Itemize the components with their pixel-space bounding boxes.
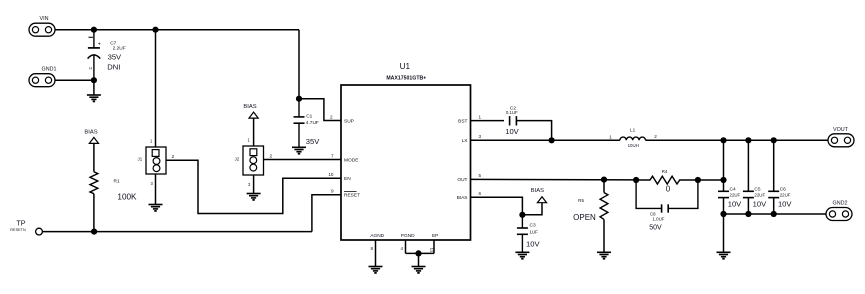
- svg-text:10UH: 10UH: [628, 143, 639, 148]
- resistor R4 0: [636, 169, 698, 194]
- svg-text:2: 2: [654, 134, 657, 139]
- svg-text:6: 6: [479, 191, 482, 196]
- svg-text:LX: LX: [462, 138, 469, 144]
- power flag BIAS (J2): [243, 104, 258, 118]
- wire U1 BIAS pin to C3: [471, 197, 523, 215]
- test point TP (RESETN): [10, 218, 42, 235]
- wire R1 to RESET line: [93, 194, 95, 232]
- wire top rail drop to C1 node: [298, 30, 300, 99]
- svg-text:J1: J1: [138, 157, 143, 162]
- svg-text:EN: EN: [344, 176, 351, 182]
- pin BIAS (6): [457, 191, 482, 201]
- svg-text:BIAS: BIAS: [531, 188, 544, 194]
- wire RESET net up to U1 RESET pin: [312, 195, 341, 232]
- wire BIAS flag to J2 pin1: [253, 118, 255, 146]
- junction BIAS / C3: [519, 212, 525, 218]
- ground below C1: [292, 147, 306, 153]
- svg-text:C1: C1: [306, 114, 312, 120]
- capacitor C2 0.1uF 10V (BST): [505, 105, 519, 136]
- svg-text:9: 9: [331, 189, 334, 194]
- svg-text:22UF: 22UF: [730, 193, 741, 198]
- connector VIN (P-VIN): [29, 16, 55, 36]
- svg-text:4: 4: [400, 246, 403, 251]
- ground below R5: [597, 252, 611, 258]
- svg-text:10V: 10V: [526, 239, 540, 248]
- resistor R5 OPEN: [573, 193, 608, 222]
- pin OUT (5): [457, 173, 481, 183]
- connector GND1 (P-GND1): [29, 67, 56, 87]
- wire BIAS node to flag: [522, 203, 542, 215]
- svg-text:35V: 35V: [108, 52, 122, 61]
- junction R4/C8 right node: [695, 177, 701, 183]
- svg-text:C6: C6: [780, 186, 786, 192]
- svg-text:+: +: [98, 41, 101, 47]
- pin LX (3): [462, 134, 482, 144]
- svg-text:R4: R4: [662, 169, 668, 174]
- junction C1 / SUP node: [296, 96, 302, 102]
- svg-text:GND1: GND1: [42, 67, 57, 73]
- wire EP down: [433, 240, 435, 253]
- wire node to U1 SUP: [299, 99, 341, 121]
- svg-text:U1: U1: [400, 62, 411, 71]
- wire BIAS flag to R1: [93, 143, 95, 171]
- pin SUP (2): [330, 114, 354, 124]
- connector VOUT (P-VOUT): [828, 127, 854, 147]
- svg-text:22UF: 22UF: [754, 193, 765, 198]
- power flag BIAS (R1 pullup): [84, 130, 98, 144]
- svg-text:1: 1: [479, 114, 482, 119]
- svg-text:PGND: PGND: [401, 233, 415, 239]
- svg-text:50V: 50V: [649, 225, 662, 232]
- wire R5 to ground: [603, 219, 605, 252]
- junction top rail / J1 branch: [152, 27, 158, 33]
- wire PGND down: [405, 240, 407, 253]
- svg-text:1.0UF: 1.0UF: [653, 217, 665, 222]
- svg-text:1: 1: [609, 134, 612, 139]
- svg-text:35V: 35V: [306, 137, 320, 146]
- junction VOUT rail / C6: [771, 137, 777, 143]
- wire C2 to LX line: [516, 121, 551, 141]
- wire AGND to ground: [375, 240, 377, 267]
- junction GND1/C7/ground node: [91, 77, 97, 83]
- resistor R1 100K: [90, 172, 137, 202]
- junction BST cap / LX: [549, 137, 555, 143]
- svg-text:C3: C3: [530, 223, 536, 229]
- junction VIN/C7 node: [91, 27, 97, 33]
- svg-text:R1: R1: [114, 179, 120, 185]
- svg-text:EP: EP: [432, 233, 438, 239]
- svg-text:10V: 10V: [778, 200, 792, 209]
- wire C7 node to ground: [93, 80, 95, 95]
- wire feedback to VOUT: [698, 179, 724, 181]
- ground below output rail: [717, 252, 731, 258]
- pin AGND (8): [370, 233, 384, 251]
- wire R5 top: [603, 180, 605, 193]
- wire J2 pin3 to ground: [253, 175, 255, 194]
- svg-text:RESETN: RESETN: [10, 228, 26, 232]
- svg-text:BIAS: BIAS: [457, 195, 468, 201]
- wire L1 to VOUT rail: [646, 139, 829, 141]
- capacitor C1 4.7uF 35V: [294, 99, 321, 148]
- svg-text:10: 10: [328, 172, 334, 177]
- svg-text:2.2UF: 2.2UF: [113, 45, 126, 51]
- connector GND2 (P-GND2): [826, 201, 852, 221]
- svg-text:4.7UF: 4.7UF: [306, 120, 319, 126]
- svg-text:H: H: [89, 66, 92, 71]
- capacitor C3 1uF 10V: [517, 215, 541, 253]
- jumper J1 (3-pin header): [138, 139, 175, 186]
- wire TP to RESET net: [42, 231, 312, 233]
- junction R1 / RESET net: [91, 229, 97, 235]
- wire J1 pin2 to U1 EN: [166, 160, 341, 213]
- wire ground rail to ground: [723, 214, 725, 252]
- pin EN (10): [328, 172, 351, 182]
- svg-text:BIAS: BIAS: [243, 104, 256, 110]
- svg-text:C5: C5: [754, 186, 760, 192]
- junction OUT / R5: [601, 177, 607, 183]
- svg-text:8: 8: [370, 246, 373, 251]
- pin PGND (4): [400, 233, 415, 251]
- wire C4 to ground rail: [723, 198, 725, 214]
- svg-text:0: 0: [666, 185, 671, 194]
- wire output ground rail: [724, 213, 827, 215]
- svg-text:DNI: DNI: [107, 63, 120, 72]
- pin RESET (9) with overbar: [331, 189, 360, 199]
- svg-text:BST: BST: [458, 118, 467, 124]
- wire rail to C4: [723, 140, 725, 191]
- svg-text:10V: 10V: [728, 200, 742, 209]
- op-amp U1 MAX17501GTB+ (IC body): [341, 62, 471, 240]
- svg-text:100K: 100K: [117, 193, 137, 202]
- capacitor C8 1.0uF 50V (across R4): [636, 180, 698, 232]
- svg-text:1UF: 1UF: [530, 229, 539, 234]
- inductor L1 10UH: [609, 127, 657, 148]
- junction sense / C4 branch: [720, 177, 726, 183]
- svg-text:L1: L1: [630, 127, 636, 132]
- svg-text:RESET: RESET: [344, 193, 360, 199]
- svg-text:2: 2: [172, 154, 175, 160]
- svg-text:R5: R5: [578, 198, 584, 203]
- svg-text:AGND: AGND: [370, 233, 384, 239]
- ground below J2: [247, 194, 261, 200]
- wire J1 pin3 to ground: [155, 174, 157, 205]
- svg-text:2: 2: [330, 114, 333, 119]
- wire C6 to ground rail: [773, 198, 775, 214]
- svg-text:5: 5: [479, 173, 482, 178]
- capacitor C4 22uF 10V: [718, 186, 742, 208]
- pin MODE (7): [331, 153, 358, 163]
- svg-text:2: 2: [270, 153, 273, 159]
- wire GND1 to C7 bottom: [55, 79, 94, 81]
- svg-text:TP: TP: [16, 218, 25, 227]
- svg-text:MODE: MODE: [344, 157, 358, 163]
- ground below C3: [515, 252, 529, 258]
- svg-text:OPEN: OPEN: [573, 213, 596, 222]
- svg-text:J2: J2: [235, 157, 240, 162]
- wire C5 to ground rail: [747, 198, 749, 214]
- wire PGND-EP link: [406, 252, 435, 254]
- svg-text:10V: 10V: [505, 127, 519, 136]
- svg-text:7: 7: [331, 153, 334, 158]
- svg-text:OUT: OUT: [457, 177, 467, 183]
- ground below PGND/EP: [412, 267, 426, 273]
- wire BST to C2: [471, 120, 505, 122]
- junction ground rail / C6: [771, 211, 777, 217]
- junction VOUT rail / C5: [745, 137, 751, 143]
- ground below J1: [149, 205, 163, 211]
- pin BST (1): [458, 114, 481, 124]
- svg-text:BIAS: BIAS: [84, 130, 97, 136]
- junction ground rail / C4: [720, 211, 726, 217]
- svg-text:GND2: GND2: [833, 201, 848, 207]
- wire rail to C5: [747, 140, 749, 191]
- ground below AGND: [369, 267, 383, 273]
- svg-text:C4: C4: [730, 186, 736, 192]
- svg-text:VOUT: VOUT: [833, 127, 849, 133]
- svg-text:VIN: VIN: [40, 16, 49, 22]
- wire VIN to top rail: [55, 29, 299, 31]
- capacitor C6 22uF 10V: [768, 186, 792, 208]
- junction VOUT rail / C4: [720, 137, 726, 143]
- wire top rail to J1 pin1: [155, 30, 157, 147]
- ground below C7: [87, 95, 101, 101]
- wire OUT to output node: [471, 178, 637, 181]
- svg-text:3: 3: [479, 134, 482, 139]
- svg-text:22UF: 22UF: [780, 193, 791, 198]
- wire J2 pin2 to U1 MODE: [264, 159, 342, 161]
- pin EP (11): [430, 233, 439, 253]
- svg-text:10V: 10V: [753, 200, 767, 209]
- junction R4/C8 left node: [633, 177, 639, 183]
- wire rail to C6: [773, 140, 775, 191]
- capacitor C7 2.2uF 35V DNI (polarized): [88, 30, 126, 80]
- svg-text:SUP: SUP: [344, 118, 354, 124]
- power flag BIAS (C3): [531, 188, 547, 203]
- junction ground rail / C5: [745, 211, 751, 217]
- junction PGND/EP: [415, 250, 421, 256]
- svg-text:0.1UF: 0.1UF: [506, 110, 518, 115]
- wire PGND/EP node to ground: [418, 253, 420, 266]
- wire LX to L1: [471, 139, 620, 141]
- jumper J2 (3-pin header): [235, 138, 273, 187]
- svg-text:MAX17501GTB+: MAX17501GTB+: [386, 76, 426, 82]
- capacitor C5 22uF 10V: [743, 186, 767, 208]
